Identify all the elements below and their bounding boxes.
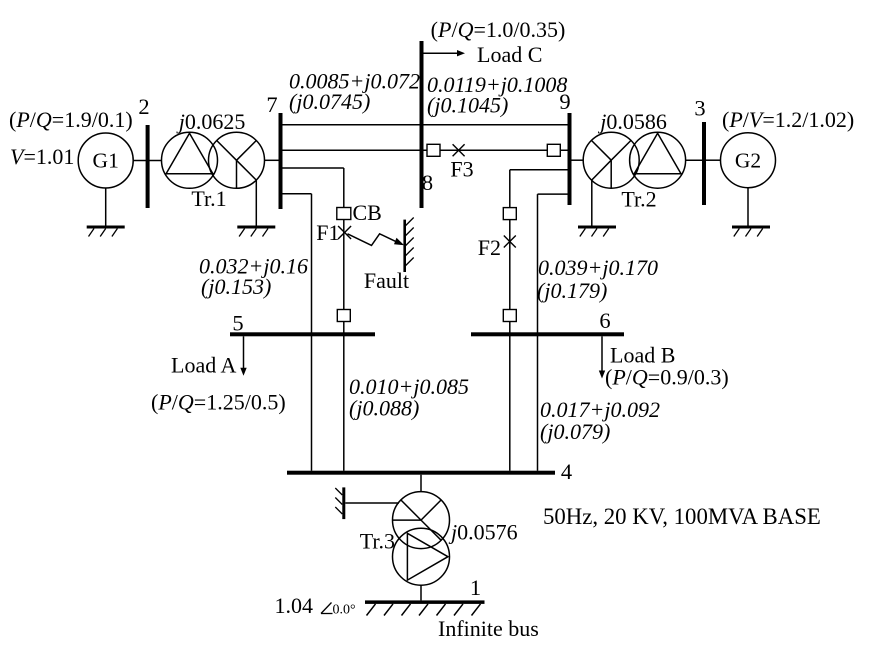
svg-text:(j0.088): (j0.088): [349, 396, 419, 421]
svg-text:F3: F3: [450, 157, 473, 182]
svg-text:CB: CB: [353, 200, 382, 225]
svg-text:(P/Q=1.9/0.1): (P/Q=1.9/0.1): [9, 107, 133, 132]
svg-text:G1: G1: [93, 149, 119, 173]
svg-text:Infinite bus: Infinite bus: [438, 616, 539, 641]
svg-text:F1: F1: [316, 220, 339, 245]
svg-text:1: 1: [470, 575, 481, 600]
svg-text:G2: G2: [735, 149, 761, 173]
svg-text:6: 6: [599, 308, 610, 333]
svg-text:4: 4: [561, 459, 572, 484]
svg-text:5: 5: [232, 311, 243, 336]
svg-text:(j0.153): (j0.153): [201, 274, 271, 299]
svg-text:2: 2: [138, 94, 149, 119]
svg-text:j0.0576: j0.0576: [448, 520, 518, 545]
svg-text:Load A: Load A: [171, 353, 236, 378]
svg-text:(P/Q=1.25/0.5): (P/Q=1.25/0.5): [151, 390, 286, 415]
svg-text:F2: F2: [478, 235, 501, 260]
svg-text:8: 8: [422, 170, 433, 195]
svg-text:Tr.3: Tr.3: [360, 529, 395, 554]
svg-text:(P/Q=1.0/0.35): (P/Q=1.0/0.35): [431, 17, 566, 42]
svg-text:9: 9: [559, 89, 570, 114]
svg-text:Tr.2: Tr.2: [621, 187, 656, 212]
svg-text:Fault: Fault: [364, 268, 409, 293]
svg-text:50Hz, 20 KV, 100MVA BASE: 50Hz, 20 KV, 100MVA BASE: [543, 504, 821, 529]
svg-text:j0.0625: j0.0625: [176, 109, 246, 134]
svg-text:3: 3: [694, 96, 705, 121]
svg-text:7: 7: [266, 92, 277, 117]
svg-text:V=1.01: V=1.01: [10, 144, 74, 169]
svg-text:0.039+j0.170: 0.039+j0.170: [538, 255, 658, 280]
svg-text:j0.0586: j0.0586: [597, 109, 667, 134]
svg-text:Load C: Load C: [477, 42, 542, 67]
svg-text:(j0.1045): (j0.1045): [427, 93, 508, 118]
svg-text:(j0.0745): (j0.0745): [289, 89, 370, 114]
svg-text:0.0°: 0.0°: [333, 603, 356, 618]
svg-text:(j0.179): (j0.179): [537, 278, 607, 303]
svg-text:(P/Q=0.9/0.3): (P/Q=0.9/0.3): [605, 365, 729, 390]
svg-text:(P/V=1.2/1.02): (P/V=1.2/1.02): [722, 107, 854, 132]
svg-text:Tr.1: Tr.1: [191, 186, 226, 211]
svg-text:1.04: 1.04: [275, 593, 314, 618]
svg-text:(j0.079): (j0.079): [540, 419, 610, 444]
